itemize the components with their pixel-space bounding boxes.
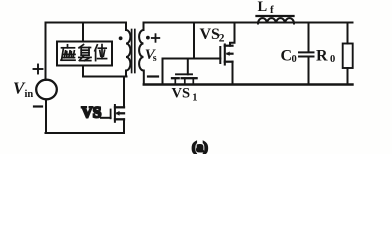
wire gate-line left drop to rail xyxy=(162,59,164,85)
svg-text:R: R xyxy=(316,48,328,65)
VS2 body tick with arrow xyxy=(228,53,233,55)
wire gate-line vertical from top rail xyxy=(193,23,195,59)
wire primary bottom rail xyxy=(46,132,125,134)
dot secondary winding xyxy=(146,36,150,40)
svg-text:1: 1 xyxy=(192,93,197,104)
VS2 source tick xyxy=(225,61,233,63)
wire C0 bottom xyxy=(308,58,310,85)
R0 box xyxy=(343,44,353,69)
wire VS drain xyxy=(123,77,125,108)
transformer primary top corner xyxy=(125,23,127,31)
transformer secondary top lead xyxy=(143,23,145,31)
transformer primary winding xyxy=(126,30,130,71)
inductor Lf core bar xyxy=(257,15,294,17)
VS1 source dash xyxy=(190,77,197,79)
polarity - of Vin xyxy=(34,105,42,107)
VS source dash xyxy=(115,118,124,120)
wire reset return horizontal to node xyxy=(83,76,127,78)
svg-text:2: 2 xyxy=(219,33,225,45)
svg-text:f: f xyxy=(270,4,274,16)
transformer secondary bottom lead xyxy=(143,71,145,85)
transformer secondary winding xyxy=(139,30,143,71)
wire primary top rail xyxy=(46,22,127,24)
VS body dash with arrow xyxy=(118,112,125,114)
svg-text:0: 0 xyxy=(330,54,335,65)
dot primary winding xyxy=(119,36,123,40)
label VS2 xyxy=(200,26,225,45)
C0 plates xyxy=(299,51,314,53)
label C0 xyxy=(281,48,297,66)
source Vin xyxy=(36,80,57,100)
svg-text:s: s xyxy=(153,53,157,64)
svg-text:VS: VS xyxy=(82,105,102,122)
svg-text:L: L xyxy=(258,0,268,15)
label Vin xyxy=(13,79,33,101)
label VS1 xyxy=(172,86,198,104)
VS1 body dash xyxy=(182,77,188,79)
wire secondary bottom rail xyxy=(144,83,353,85)
svg-text:VS: VS xyxy=(200,26,221,43)
label R0 xyxy=(316,48,335,66)
VS drain dash xyxy=(115,106,124,108)
glyph 磁 xyxy=(61,45,75,60)
inductor Lf winding xyxy=(258,18,294,23)
wire reset box top drop xyxy=(82,23,84,42)
VS2 drain tick xyxy=(225,45,233,47)
svg-text:(a): (a) xyxy=(192,140,208,155)
polarity + of Vs xyxy=(152,34,160,42)
wire R0 bottom xyxy=(347,68,349,85)
transformer core lines xyxy=(131,30,133,73)
label Lf xyxy=(258,0,275,16)
glyph 复 xyxy=(79,45,91,61)
VS1 drain dash xyxy=(172,77,179,79)
wire VS1 gate drop xyxy=(187,59,189,75)
VS1 gate bar xyxy=(176,73,192,75)
svg-text:C: C xyxy=(281,48,293,65)
wire C0 top xyxy=(308,23,310,52)
VS gate lead xyxy=(101,117,111,119)
label Vs xyxy=(145,47,157,64)
svg-text:0: 0 xyxy=(292,54,297,65)
wire secondary top rail xyxy=(144,22,353,24)
wire R0 top xyxy=(347,23,349,44)
glyph 位 xyxy=(95,45,107,61)
svg-text:in: in xyxy=(25,89,34,100)
wire VS2 drain xyxy=(230,23,235,46)
VS2 channel bar xyxy=(224,45,226,65)
VS gate bar xyxy=(110,110,112,119)
wire gate-line horizontal xyxy=(163,58,221,60)
svg-text:VS: VS xyxy=(172,86,191,102)
VS2 gate bar xyxy=(219,47,221,63)
VS channel bar xyxy=(114,105,116,122)
wire VS2 source xyxy=(232,62,234,85)
polarity + of Vin xyxy=(34,65,43,74)
wire VS source xyxy=(123,119,125,133)
wire reset box bottom drop xyxy=(82,66,84,77)
VS1 ticks to rail xyxy=(174,78,176,84)
magnetic reset box 磁复位 xyxy=(57,42,112,66)
polarity - of Vs xyxy=(148,75,158,77)
wire primary left vertical (Vin branch) xyxy=(45,23,47,81)
transformer primary bottom lead xyxy=(125,71,127,77)
